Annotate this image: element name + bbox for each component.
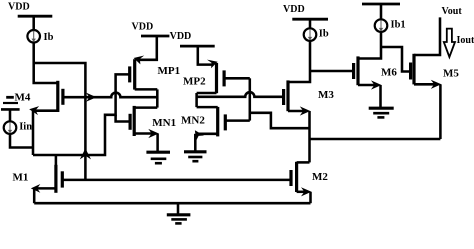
wire: rail to ground symbol [177,203,180,215]
MP2 drain lead [197,92,217,95]
current source Ib1 [375,19,388,32]
MN1 source lead with arrow [134,132,154,135]
svg-text:VDD: VDD [170,31,192,42]
transistor MP2 channel [215,63,218,93]
svg-text:MP2: MP2 [183,75,206,87]
M4 top plate [6,96,14,99]
current source Ib (left) [27,30,40,43]
wire: bar2 to MP1 source [138,36,157,60]
M2 source lead with arrow [297,191,307,194]
svg-text:M2: M2 [312,171,328,183]
wire: Ib down to M3 drain, branch to M6 gate [288,41,310,82]
current source Iin [4,121,17,134]
MP2 gate plate [223,70,226,86]
node junction arrow (bias node, pointing right) [86,93,97,102]
M3 gate plate [282,89,285,105]
transistor M2 channel [295,162,298,192]
M4 middle plate [3,102,18,104]
ground (under MN2) [184,150,207,153]
M5 gate plate [409,63,412,80]
VDD supply bar 5 (top right) [362,3,400,6]
wire: M4 to Iin source [9,109,12,121]
ground (under M6) [369,107,394,110]
wire: M2 source to ground rail [309,192,312,203]
wire: bar3 to MP2 source [198,46,213,65]
M6 source lead with arrow [358,84,377,87]
svg-text:VDD: VDD [283,4,305,15]
M5 drain lead to Vout [414,17,440,55]
svg-text:Vout: Vout [442,6,463,17]
current source Ib (right) [304,28,317,41]
Mcas gate lead to bias node [63,96,86,99]
svg-text:MN2: MN2 [181,114,205,126]
svg-text:M4: M4 [15,92,31,104]
M1 gate plate [61,171,64,187]
wire: Mcas source down to sense node [32,111,35,155]
svg-text:M6: M6 [381,66,397,78]
wire W_A: bias node to inverter1 output with hop [85,93,157,98]
VDD supply bar 1 [18,15,53,18]
transistor MN1 channel [133,106,136,136]
svg-text:MP1: MP1 [158,65,181,77]
wire: MN2 source to ground [194,134,197,152]
transistor Mcas (cascode, unlabeled) channel [56,81,59,112]
Mcas gate plate [61,89,64,105]
Mcas source lead with arrow [32,109,58,112]
MN2 drain lead [197,106,218,109]
M1 channel [54,165,57,193]
M5 source lead with arrow [414,83,437,86]
wire: Iin to sense node [10,134,33,148]
wire: M6 source to ground [379,85,382,108]
wire: branch to M6 gate [310,70,354,73]
M2 gate plate [289,170,292,186]
MP2 source arrow (into channel top, mirrored) [207,60,218,69]
wire: Ib1 down to M6 drain [358,32,381,59]
wire H1: inverter2 output to M3 gate with hop [197,92,284,97]
VDD supply bar 3 [180,45,215,48]
M4 bottom plate [1,108,20,111]
wire: MN1 source to ground [156,134,159,153]
crossover arrow on feedback vertical at sense wire [80,148,91,159]
wire: Ib down, branch to bias line, down to Mcas drain [34,43,58,84]
transistor M3 channel [286,80,289,111]
wire: sense node horizontal (M1 drain node) [33,74,130,155]
inverter1 output vertical [156,89,159,107]
bias feedback vertical to M1/M2 gate line [84,97,87,180]
wire: bar5 to current source Ib1 [380,4,383,19]
svg-text:Ib: Ib [319,28,329,39]
MN2 gate plate [224,114,227,130]
transistor M5 channel [412,54,415,85]
M3 source lead with arrow [288,110,306,113]
ground (bottom center) [167,213,191,216]
wire: branch at y63 to bias vertical [34,63,86,97]
svg-text:VDD: VDD [132,21,154,32]
svg-text:Ib1: Ib1 [391,19,406,30]
wire: output node to M5 source [310,138,441,141]
MN2 source lead with arrow [199,133,218,136]
svg-text:M5: M5 [443,68,459,80]
op transistor MP1 channel [133,59,136,89]
svg-text:Iin: Iin [19,121,32,132]
MN2 gate lead [225,119,250,122]
shared gate wire M1-M2 [62,179,291,182]
MP1 source arrow (into channel top) [134,56,145,65]
ground (under MN1) [146,151,170,154]
svg-text:Ib: Ib [44,32,54,43]
svg-text:VDD: VDD [8,2,30,13]
MP2 gate lead [224,77,250,80]
wire: bar1 to current source Ib [32,16,35,30]
svg-text:Iout: Iout [457,35,474,46]
VDD supply bar 4 [292,18,328,21]
ground rail (bottom) [34,202,310,205]
wire: M3 source down to M2 drain node [308,111,311,162]
stage2 input wire: gates to M2 drain node [249,78,252,120]
svg-text:M1: M1 [13,172,29,184]
svg-text:M3: M3 [318,89,334,101]
MP1 drain lead [135,88,158,91]
transistor M6 channel [356,56,359,85]
wire: M1 source to ground rail [33,188,36,203]
wire: branch to M5 gate [381,47,411,72]
MP1 gate plate [128,66,131,82]
MN1 gate plate [129,114,132,130]
wire: M5 source to output node [439,84,442,139]
wire: M1 drain tap [55,155,58,167]
MN1 drain lead [134,106,157,109]
inverter2 output vertical [195,93,198,107]
wire: inverter1 input stub to MN1 gate [116,115,131,122]
M1 source lead with arrow [34,187,56,190]
M6 gate plate [352,63,355,79]
wire: bar4 to current source Ib (right) [309,19,312,28]
transistor MN2 channel [216,107,219,136]
svg-text:MN1: MN1 [152,117,176,129]
Iout hollow arrow [444,29,455,57]
M2 drain lead [297,161,310,164]
VDD supply bar 2 [141,35,169,38]
